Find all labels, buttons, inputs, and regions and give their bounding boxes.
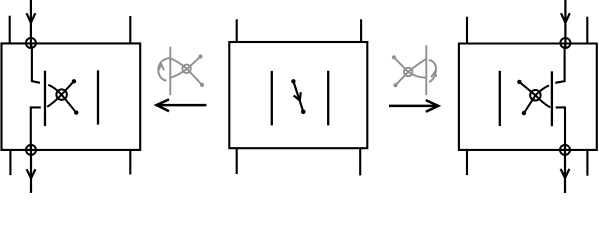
gray dot lower [393,83,397,87]
wire bottom-left stub [9,150,11,175]
barrier bar right [327,71,329,126]
gray dot lower [200,83,204,87]
defect dot lower [522,111,526,115]
barrier bar left [44,71,46,126]
dipole dot upper [291,79,295,83]
wire bottom-left stub [236,148,238,174]
gate lead lower (broken junction) [556,107,565,150]
wire current output (bottom) [564,144,566,193]
defect dot upper [72,79,76,83]
arrowhead on top wire [561,13,570,23]
node bottom junction circle [26,145,36,155]
rotation arc [429,60,436,82]
box (left device) [2,43,141,149]
barrier bar left [499,71,501,126]
wire current input (top) [30,0,32,49]
wire top-right stub [360,19,362,42]
gate lead upper (broken junction) [31,45,40,83]
defect dot lower [74,110,78,114]
rotation arc [158,58,169,81]
barrier bar right [97,70,99,124]
wire top-right stub [586,17,588,44]
box (center device) [229,42,367,148]
arrow pointing right [389,100,438,112]
gray dot upper [198,54,202,58]
axis bar (gray) [425,45,427,95]
defect symbol (crossed circle with arms) [47,82,76,112]
dipole arrowhead [294,92,301,100]
defect symbol (crossed circle with arms) [520,82,550,112]
dipole dot lower [301,110,306,115]
rotation arc arrowhead [431,72,436,78]
gray defect symbol [394,58,426,85]
rotation arc arrowhead [159,64,164,71]
wire bottom-left stub [466,150,468,175]
gray dot upper [392,55,396,59]
gate lead upper (broken junction) [555,45,565,83]
gate lead lower (broken junction) [31,107,41,150]
node bottom junction circle [560,145,570,155]
axis bar (gray) [169,47,171,96]
dipole line [293,81,303,112]
node top junction circle [26,38,36,48]
wire top-left stub [236,19,238,42]
wire top-left stub [9,16,11,44]
wire bottom-right stub [129,150,131,175]
node top junction circle [560,38,570,48]
gray defect symbol [171,57,202,85]
arrowhead on bottom wire [561,169,570,178]
box (right device) [459,44,597,150]
wire top-right stub [129,16,131,43]
wire top-left stub [466,17,468,44]
wire current input (top) [564,0,566,49]
wire bottom-right stub [586,150,588,176]
wire current output (bottom) [30,144,32,193]
wire bottom-right stub [359,148,361,175]
arrowhead on bottom wire [27,169,36,178]
defect dot upper [517,80,521,84]
barrier bar right [551,71,553,126]
arrowhead on top wire [27,13,36,23]
barrier bar left [271,71,273,126]
arrow pointing left [157,99,207,111]
